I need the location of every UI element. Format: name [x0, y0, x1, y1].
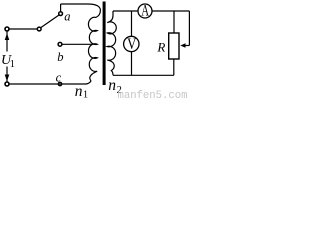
wire top-left horizontal	[9, 28, 37, 30]
voltage U1 arrow down	[5, 75, 10, 82]
wire voltmeter top lead	[131, 11, 133, 36]
voltage U1 line lower segment	[6, 67, 8, 82]
svg-text:a: a	[64, 9, 70, 23]
primary winding n1	[86, 4, 100, 84]
svg-text:A: A	[141, 2, 149, 19]
ammeter U-A circle	[138, 4, 152, 18]
contact b circle	[58, 42, 62, 46]
wire secondary bottom	[113, 74, 174, 76]
contact c circle	[58, 82, 61, 85]
svg-text:n: n	[108, 77, 116, 94]
svg-text:1: 1	[10, 59, 15, 70]
svg-text:b: b	[57, 50, 63, 64]
switch arm S (to contact a)	[41, 15, 59, 28]
svg-text:1: 1	[83, 90, 88, 100]
terminal T1 (top left input)	[5, 27, 9, 31]
svg-text:c: c	[56, 70, 62, 84]
wire bottom-left horizontal	[9, 83, 86, 85]
wire top to primary winding	[61, 3, 88, 5]
voltmeter U-V circle	[124, 36, 139, 51]
wire ammeter to right	[152, 10, 189, 12]
contact a circle	[59, 12, 63, 16]
wire secondary top to ammeter	[113, 10, 138, 12]
svg-text:V: V	[127, 36, 137, 53]
rheostat wiper arrow	[183, 45, 189, 47]
svg-text:R: R	[156, 39, 165, 54]
resistor R body	[169, 33, 179, 59]
wire from contact a up	[60, 4, 62, 12]
secondary winding n2	[107, 11, 116, 75]
svg-text:manfen5.com: manfen5.com	[118, 90, 188, 100]
voltage U1 line upper segment	[6, 32, 8, 52]
wire resistor bottom lead	[173, 59, 175, 75]
voltage U1 arrow up	[5, 33, 10, 40]
terminal T2 (bottom left input)	[5, 82, 9, 86]
wire right branch down	[188, 11, 190, 46]
switch pivot circle	[37, 27, 41, 31]
transformer core	[103, 2, 106, 86]
wire voltmeter bottom lead	[131, 52, 133, 76]
wire resistor top lead	[173, 11, 175, 33]
svg-text:n: n	[75, 83, 83, 100]
wire tap b to winding	[62, 43, 97, 45]
